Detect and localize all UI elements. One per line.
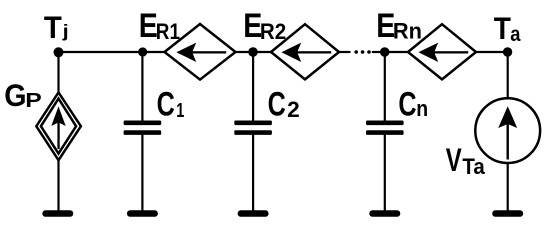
- capacitor C1 top plate: [124, 121, 162, 126]
- svg-text:n: n: [416, 97, 428, 121]
- svg-text:T: T: [44, 11, 62, 45]
- wire Ta down to VTa source: [507, 52, 509, 99]
- wire dots to ERn node: [372, 51, 385, 53]
- wire ERn right tip to Ta: [476, 51, 508, 53]
- wire VTa source to ground: [507, 162, 509, 212]
- wire C1 to ground: [141, 134, 143, 212]
- label Ta: [494, 11, 511, 46]
- svg-text:a: a: [510, 23, 521, 46]
- node C junction dot: [380, 47, 390, 57]
- node B junction dot: [248, 47, 258, 57]
- ellipsis dots: [354, 50, 370, 54]
- svg-text:2: 2: [287, 97, 300, 122]
- arrow of VTa: [498, 106, 517, 159]
- capacitor Cn bottom plate: [366, 130, 404, 135]
- wire GP source to ground: [57, 159, 59, 212]
- svg-text:Ta: Ta: [462, 154, 485, 179]
- wire Cn to ground: [384, 134, 386, 212]
- ground at C2: [238, 210, 269, 217]
- wire node A down to C1: [141, 52, 143, 122]
- arrow of GP: [51, 106, 65, 149]
- svg-text:Rn: Rn: [393, 18, 422, 43]
- wire C2 to ground: [252, 134, 254, 212]
- label Cn: [398, 86, 416, 124]
- capacitor C2 top plate: [234, 121, 272, 126]
- label GP: [4, 79, 26, 114]
- controlled source ERn diamond: [408, 24, 476, 79]
- svg-text:1: 1: [176, 98, 184, 121]
- svg-text:G: G: [4, 79, 26, 114]
- svg-text:C: C: [268, 86, 286, 124]
- node Ta junction dot: [503, 47, 512, 56]
- node A junction dot: [138, 47, 147, 56]
- wire Tj to ER1 left tip: [59, 51, 166, 53]
- arrow of ER2: [281, 43, 331, 62]
- arrow of ERn: [418, 43, 468, 62]
- label VTa: [446, 143, 462, 179]
- GP inner diamond: [41, 99, 76, 154]
- label Tj: [44, 11, 62, 45]
- controlled source ER1 diamond: [165, 24, 236, 80]
- svg-text:T: T: [494, 11, 511, 46]
- capacitor C2 bottom plate: [234, 130, 272, 135]
- ground at C1: [127, 210, 158, 217]
- wire ERn node to ERn left tip: [385, 51, 408, 53]
- ground at GP: [42, 210, 73, 217]
- wire node B down to C2: [252, 52, 254, 122]
- ground at VTa: [492, 210, 523, 217]
- controlled source GP outer diamond: [36, 92, 81, 160]
- capacitor C1 bottom plate: [124, 130, 162, 135]
- arrow of ER1: [176, 43, 226, 62]
- node Tj junction dot: [54, 47, 64, 57]
- svg-text:j: j: [61, 22, 68, 42]
- label ER1: [139, 7, 158, 45]
- label C2: [268, 86, 286, 124]
- svg-text:C: C: [157, 86, 175, 124]
- svg-text:V: V: [446, 143, 462, 179]
- independent source VTa circle: [475, 98, 540, 163]
- ground at Cn: [369, 210, 400, 217]
- wire ER2 right tip stub: [339, 51, 351, 53]
- wire ER1 right tip to ER2 left tip: [236, 51, 272, 53]
- capacitor Cn top plate: [366, 121, 404, 126]
- label ER2: [243, 7, 262, 45]
- svg-text:R1: R1: [156, 19, 180, 44]
- wire node C down to Cn: [384, 52, 386, 122]
- controlled source ER2 diamond: [271, 24, 339, 79]
- label ERn: [376, 7, 395, 45]
- wire Tj down to GP source: [57, 52, 59, 94]
- svg-text:P: P: [25, 88, 42, 112]
- label C1: [157, 86, 175, 124]
- svg-text:R2: R2: [260, 18, 286, 44]
- svg-text:C: C: [398, 86, 416, 124]
